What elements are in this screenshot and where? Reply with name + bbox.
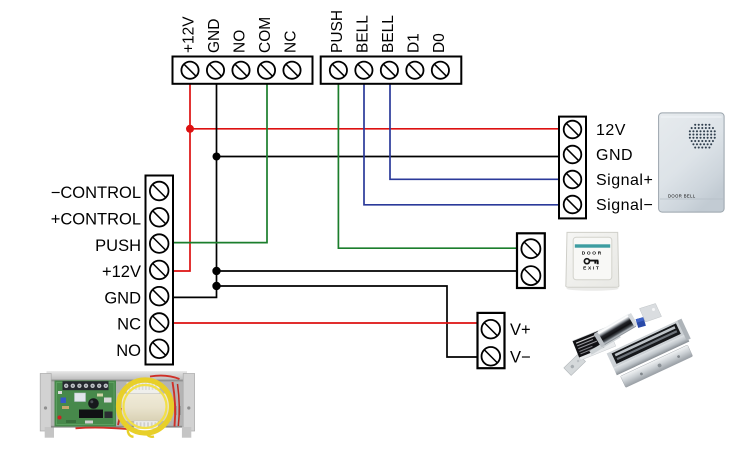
svg-text:NO: NO (232, 30, 249, 53)
svg-text:DOOR BELL: DOOR BELL (668, 194, 696, 199)
svg-text:NC: NC (117, 316, 141, 334)
pin label +12V (TB1) (181, 16, 198, 53)
svg-text:+12V: +12V (102, 263, 141, 281)
svg-text:BELL: BELL (380, 15, 397, 53)
wire red +12V: controller +12V down to left reader +12V (173, 84, 190, 271)
pin label COM (TB1) (257, 17, 274, 53)
pin label Signal+ (TB4) (596, 172, 653, 189)
pin label GND (TB3) (104, 289, 141, 307)
pin label PUSH (TB2) (329, 10, 346, 53)
svg-text:NO: NO (116, 342, 141, 360)
pin label +12V (TB3) (102, 263, 141, 281)
pin label −CONTROL (TB3) (51, 184, 141, 202)
exit button (photo) (566, 232, 619, 290)
terminal block TB3 reader/lock connector (-CONTROL +CONTROL PUSH +12V GND NC NO) (146, 176, 174, 365)
pin label V+ (TB6) (510, 321, 531, 339)
svg-text:D0: D0 (431, 33, 448, 53)
wire red NC: left reader NC to maglock V+ (173, 322, 478, 324)
wire blue BELL2: controller BELL to doorbell Signal+ (390, 84, 559, 179)
svg-text:COM: COM (257, 17, 274, 53)
wire black branch: junction to exit button lower terminal (217, 270, 518, 272)
junction node GND at exit-button branch (black dot) (212, 267, 220, 275)
svg-text:PUSH: PUSH (329, 10, 346, 53)
pin label D0 (TB2) (431, 33, 448, 53)
pin label PUSH (TB3) (95, 237, 141, 255)
magnetic lock (photo) (607, 319, 693, 388)
svg-text:−CONTROL: −CONTROL (51, 184, 141, 202)
pin label BELL (TB2) (380, 15, 397, 53)
svg-text:+CONTROL: +CONTROL (51, 211, 141, 229)
pin label V- (TB6) (510, 348, 531, 366)
wire green PUSH: controller PUSH to exit button upper terminal (338, 84, 517, 248)
terminal block TB4 doorbell connector (12V GND Signal+ Signal-) (559, 117, 586, 219)
svg-text:PUSH: PUSH (95, 237, 141, 255)
power supply unit (photo) (40, 371, 194, 437)
doorbell (photo) (659, 113, 725, 212)
pin label D1 (TB2) (405, 33, 422, 53)
pin label NO (TB3) (116, 342, 141, 360)
wire green COM: controller COM to left reader PUSH (173, 84, 267, 243)
terminal block TB2 controller inputs (PUSH BELL BELL D1 D0) (321, 57, 462, 84)
svg-text:12V: 12V (596, 122, 626, 139)
pin label Signal− (TB4) (596, 197, 653, 214)
pin label BELL (TB2) (354, 15, 371, 53)
terminal block TB1 controller relay outputs (+12V GND NO COM NC) (173, 57, 313, 84)
svg-text:V+: V+ (510, 321, 531, 339)
pin label GND (TB4) (596, 147, 633, 164)
junction node +12V (red dot) (186, 125, 194, 133)
pin label +CONTROL (TB3) (51, 211, 141, 229)
wire red +12V branch: junction to doorbell 12V (190, 128, 559, 130)
wire black GND: controller GND down to left reader GND (173, 84, 217, 297)
svg-text:D1: D1 (405, 33, 422, 53)
svg-text:+12V: +12V (181, 16, 198, 53)
junction node GND at doorbell branch (black dot) (213, 153, 221, 161)
wire blue BELL1: controller BELL to doorbell Signal- (364, 84, 559, 205)
pin label NC (TB3) (117, 316, 141, 334)
svg-text:V−: V− (510, 348, 531, 366)
terminal block TB5 exit button connector (517, 233, 545, 288)
svg-text:EXIT: EXIT (583, 266, 600, 272)
svg-text:BELL: BELL (354, 15, 371, 53)
electric drop-bolt lock (photo) (564, 304, 662, 376)
svg-text:GND: GND (206, 19, 223, 53)
svg-text:GND: GND (596, 147, 633, 164)
wire black GND branch: junction to doorbell GND (217, 156, 560, 158)
svg-text:Signal−: Signal− (596, 197, 653, 214)
svg-text:Signal+: Signal+ (596, 172, 653, 189)
pin label 12V (TB4) (596, 122, 626, 139)
junction node GND at maglock branch (black dot) (212, 282, 220, 290)
wire black branch: junction to maglock V- (217, 286, 478, 357)
pin label NC (TB1) (283, 31, 300, 53)
svg-text:NC: NC (283, 31, 300, 53)
terminal block TB6 maglock connector (V+ V-) (478, 313, 505, 368)
svg-text:DOOR: DOOR (582, 250, 603, 256)
svg-text:GND: GND (104, 289, 141, 307)
pin label GND (TB1) (206, 19, 223, 53)
pin label NO (TB1) (232, 30, 249, 53)
